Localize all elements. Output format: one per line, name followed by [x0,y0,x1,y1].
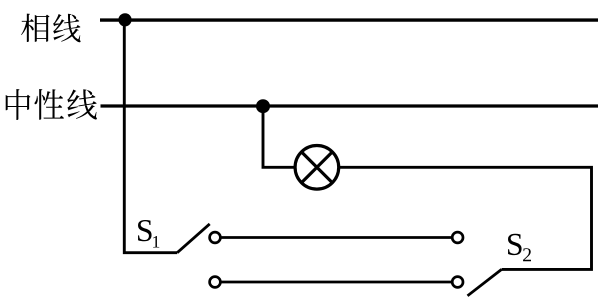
switch S2 terminal bottom [452,277,463,288]
switch S2 terminal top [452,232,463,243]
label 线 (phase-wire text char 2) [53,14,81,42]
label 相 (phase-wire text char 1) [21,14,49,42]
label 中 (neutral-wire text char 1) [6,89,31,120]
wire: bottom rail between S1 and S2 [221,281,453,284]
wire: top rail between S1 and S2 [221,236,453,239]
node: junction on neutral wire [256,99,270,113]
switch S1 blade [177,224,210,253]
label 性 (neutral-wire text char 2) [34,89,64,120]
switch S1 terminal top [210,232,221,243]
wire: vertical from live junction down to switch S1 [124,20,177,253]
wire: lamp to S2 via right side [339,167,592,269]
label S2 [508,234,531,262]
wire: live line (相线) [100,18,598,21]
switch S1 terminal bottom [210,277,221,288]
label 线 (neutral-wire text char 3) [67,89,97,119]
label S1 [138,220,159,248]
wire: neutral junction to lamp [263,106,295,167]
switch S2 blade [468,269,502,295]
node: junction on live wire [118,13,131,26]
lamp EL (circle with X) [295,146,339,190]
wire: neutral line (中性线) [101,104,599,107]
